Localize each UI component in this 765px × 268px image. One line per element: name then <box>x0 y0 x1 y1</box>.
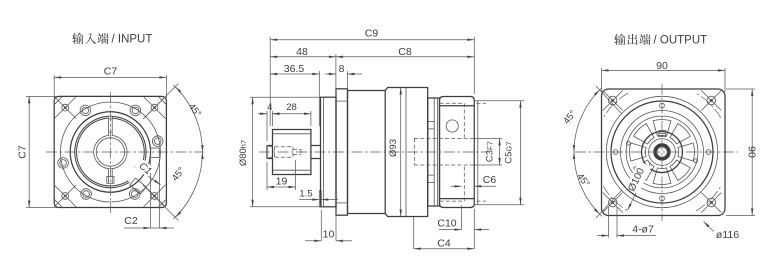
dimension 8 <box>325 63 362 91</box>
dimension C4 <box>414 217 475 250</box>
right view bolt circle dash-dot arcs <box>603 93 721 211</box>
clamp collar <box>273 130 311 175</box>
dimension 4-dia7 <box>597 207 656 238</box>
svg-text:C5G7: C5G7 <box>504 142 515 164</box>
svg-text:36.5: 36.5 <box>284 63 305 75</box>
left view hub ring <box>94 135 127 168</box>
input shaft <box>267 146 273 159</box>
right view carrier windows <box>630 120 695 185</box>
right view small screws N E S W <box>613 103 711 201</box>
svg-text:C8: C8 <box>398 46 412 58</box>
dimension C9 <box>270 28 474 127</box>
dimension 36.5 <box>270 63 319 126</box>
dimension 90 top <box>602 60 726 92</box>
right view: output end flange <box>602 89 726 216</box>
left view centerlines <box>46 92 204 213</box>
left view right side boss rect <box>151 148 160 158</box>
svg-text:8: 8 <box>339 63 345 75</box>
svg-text:Ø80h7: Ø80h7 <box>238 140 249 166</box>
dimension C3F7 <box>475 138 503 165</box>
left view clamp lug at lower right <box>130 178 147 194</box>
dimension C7 top <box>54 66 166 99</box>
title output <box>614 34 707 47</box>
left view clamp collar arcs with gap <box>75 116 146 187</box>
svg-text:10: 10 <box>323 229 335 241</box>
flange access hole <box>446 120 458 132</box>
right view centerlines <box>575 84 738 221</box>
svg-text:C10: C10 <box>437 218 456 230</box>
svg-text:C3F7: C3F7 <box>485 141 496 162</box>
dimension 48 <box>270 46 336 89</box>
left view clamp slit bottom <box>107 169 114 184</box>
svg-text:/ OUTPUT: / OUTPUT <box>654 35 708 47</box>
dimension C6 <box>451 174 497 188</box>
right view corner holes 4-dia7 <box>603 91 722 213</box>
output pilot spigot <box>474 101 478 205</box>
svg-text:C7: C7 <box>17 145 29 159</box>
svg-text:Ø93: Ø93 <box>388 139 399 157</box>
hidden hex socket dashed <box>269 147 302 157</box>
middle view centerline <box>259 151 488 153</box>
shaft between collar and adapter <box>311 146 321 159</box>
svg-text:C7: C7 <box>104 66 118 78</box>
leader C1 <box>134 159 161 185</box>
left view corner bolt holes with diagonal centerlines <box>54 97 165 207</box>
left view corner chamfer marks <box>54 96 166 207</box>
right view carrier screw holes <box>627 141 698 162</box>
svg-text:C6: C6 <box>483 174 497 186</box>
left view keyway slot top <box>108 116 113 136</box>
svg-text:/ INPUT: / INPUT <box>112 34 153 46</box>
dimension 45deg arc right <box>143 84 204 221</box>
dimension C8 <box>336 37 474 94</box>
svg-text:ø116: ø116 <box>716 229 739 241</box>
svg-text:4-ø7: 4-ø7 <box>632 224 654 236</box>
svg-text:90: 90 <box>656 60 668 72</box>
svg-text:28: 28 <box>286 102 297 113</box>
right view hub keyway <box>659 131 666 137</box>
svg-text:48: 48 <box>296 46 308 58</box>
left view boss circle <box>60 102 160 202</box>
dimension 4 <box>258 102 281 141</box>
right view hub <box>642 132 683 173</box>
svg-text:C2: C2 <box>124 215 138 227</box>
input adapter bell (dia 80) <box>321 97 337 207</box>
hidden output bore dashed <box>414 138 474 165</box>
dimension 10 <box>305 210 352 242</box>
svg-text:90: 90 <box>746 146 758 158</box>
left view socket head screws <box>58 105 163 199</box>
ring gear front housing <box>348 91 386 214</box>
hidden recess dashed lines in flange <box>440 103 487 201</box>
dimension C7 left <box>17 96 58 207</box>
svg-text:4: 4 <box>267 102 272 113</box>
dimension C5G7 <box>478 101 524 205</box>
right view outer rings <box>606 96 717 207</box>
dimension dia80h7 <box>238 97 322 207</box>
dimension 1.5 <box>299 189 338 208</box>
left view housing bore circle <box>70 112 150 192</box>
dimension 19 <box>267 160 296 190</box>
dimension C2 bottom <box>124 159 174 229</box>
leader dia100 <box>626 161 652 211</box>
dimension C10 <box>437 205 489 249</box>
dimension 45deg arc left <box>561 86 621 218</box>
title input <box>72 33 152 46</box>
svg-text:C9: C9 <box>365 28 379 40</box>
dimension dia93 <box>388 88 402 217</box>
main housing dia 93 with chamfer <box>385 88 428 217</box>
output neck ring <box>428 98 440 206</box>
output flange <box>440 97 475 208</box>
motor mounting plate <box>336 89 348 215</box>
svg-text:1.5: 1.5 <box>299 189 312 200</box>
dimension 90 right <box>726 89 758 216</box>
dimension 28 <box>273 102 311 126</box>
svg-text:19: 19 <box>276 176 288 188</box>
leader dia116 <box>704 222 740 242</box>
svg-text:C4: C4 <box>437 237 451 249</box>
left view: input end flange <box>54 96 166 207</box>
